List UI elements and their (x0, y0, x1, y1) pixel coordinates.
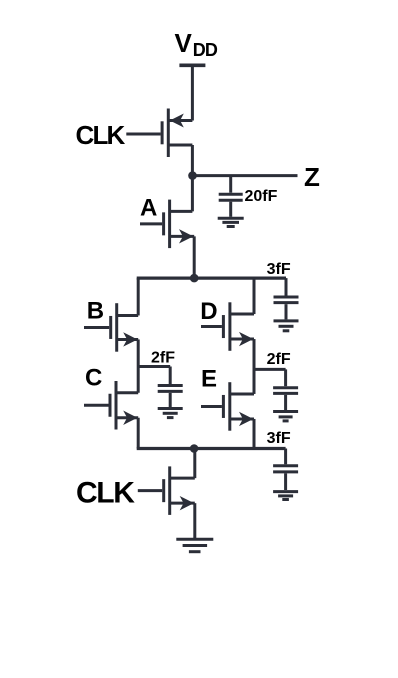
ground (C3) (273, 412, 298, 421)
wire rail to M5 drain (253, 278, 256, 314)
transistor M4 NMOS C (84, 381, 138, 430)
svg-text:A: A (140, 195, 157, 222)
ground (C1) (218, 218, 244, 226)
svg-text:E: E (201, 365, 217, 392)
svg-text:DD: DD (193, 40, 218, 60)
wire M7 source to ground (193, 503, 196, 538)
svg-text:CLK: CLK (76, 476, 135, 509)
transistor M2 NMOS A (140, 200, 194, 249)
wire M5 source to M6 drain (253, 339, 256, 394)
transistor M5 NMOS D (201, 302, 254, 351)
node N1 junction (190, 274, 199, 283)
svg-text:2fF: 2fF (267, 351, 291, 368)
wire junction to capacitor C2 (138, 365, 170, 368)
capacitor C4 3fF top (274, 278, 299, 319)
transistor M3 NMOS B (84, 303, 138, 352)
ground (C5) (273, 492, 298, 500)
wire M2 source to node N1 (193, 236, 196, 278)
wire node N2 rail (137, 447, 286, 450)
svg-text:CLK: CLK (76, 120, 126, 150)
svg-text:C: C (85, 365, 102, 392)
wire M6 source to node N2 (253, 419, 256, 449)
wire node Z to M2 drain (191, 176, 194, 212)
wire M4 source to node N2 (137, 418, 140, 449)
wire node Z to capacitor C1 (229, 176, 232, 193)
ground (C4) (274, 321, 299, 331)
wire node Z output (193, 174, 298, 177)
svg-text:20fF: 20fF (245, 188, 278, 205)
label VDD (175, 28, 218, 60)
capacitor C5 3fF bottom (273, 449, 298, 491)
wire M1 drain to node Z (191, 145, 194, 176)
wire node N2 to M7 drain (193, 449, 196, 479)
wire M3 source to M4 drain (137, 339, 140, 392)
ground (main) (176, 539, 213, 552)
svg-text:Z: Z (304, 162, 320, 192)
power VDD supply bar (179, 64, 205, 68)
transistor M7 NMOS foot (gate CLK) (138, 466, 195, 515)
wire node N1 rail (137, 277, 286, 280)
svg-text:2fF: 2fF (151, 349, 175, 366)
transistor M1 PMOS precharge (gate CLK) (126, 109, 192, 158)
capacitor C2 (158, 367, 183, 408)
svg-text:V: V (175, 28, 193, 58)
wire junction to capacitor C3 (254, 368, 286, 371)
wire rail to M3 drain (137, 278, 140, 315)
svg-text:3fF: 3fF (267, 430, 291, 447)
capacitor C1 (219, 194, 243, 217)
svg-text:D: D (200, 298, 217, 325)
capacitor C3 (273, 369, 298, 410)
wire VDD to M1 source (191, 65, 194, 120)
ground (C2) (158, 409, 183, 418)
svg-text:B: B (87, 298, 104, 325)
node Z junction (188, 171, 197, 180)
svg-text:3fF: 3fF (267, 261, 291, 278)
node N2 junction (190, 444, 199, 453)
transistor M6 NMOS E (201, 382, 254, 431)
